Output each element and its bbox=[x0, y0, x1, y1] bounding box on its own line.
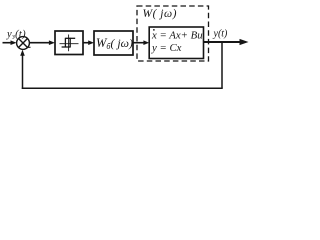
dashed box W(jω) bbox=[137, 6, 209, 61]
summing junction U1 (circle with X) bbox=[17, 37, 30, 50]
wire feedback right vertical drop from branch point bbox=[221, 42, 223, 88]
wire relay block to Wб block bbox=[83, 40, 94, 45]
block N1 relay nonlinearity bbox=[55, 31, 83, 55]
svg-text:W( jω): W( jω) bbox=[143, 8, 177, 20]
svg-text:y(t): y(t) bbox=[213, 28, 229, 39]
svg-text:y = Cx: y = Cx bbox=[151, 42, 182, 54]
wire Wб block to state-space block bbox=[133, 40, 149, 45]
block state-space bbox=[149, 27, 203, 59]
wire feedback left vertical rising into summer bbox=[20, 50, 25, 89]
minus sign at feedback input of summer bbox=[27, 46, 30, 48]
dot above x bbox=[153, 29, 155, 31]
relay hysteresis characteristic icon bbox=[60, 35, 79, 52]
svg-text:Wб( jω): Wб( jω) bbox=[96, 36, 133, 51]
svg-text:yз(t): yз(t) bbox=[6, 29, 26, 41]
wire summer to relay block bbox=[29, 40, 55, 45]
block Wб(jω) bbox=[94, 31, 133, 55]
wire input arrow into summing junction bbox=[3, 40, 17, 45]
wire feedback bottom horizontal bbox=[22, 87, 223, 89]
svg-text:x = Ax+ Bu: x = Ax+ Bu bbox=[151, 29, 203, 41]
wire output y(t) with arrow bbox=[204, 39, 249, 45]
